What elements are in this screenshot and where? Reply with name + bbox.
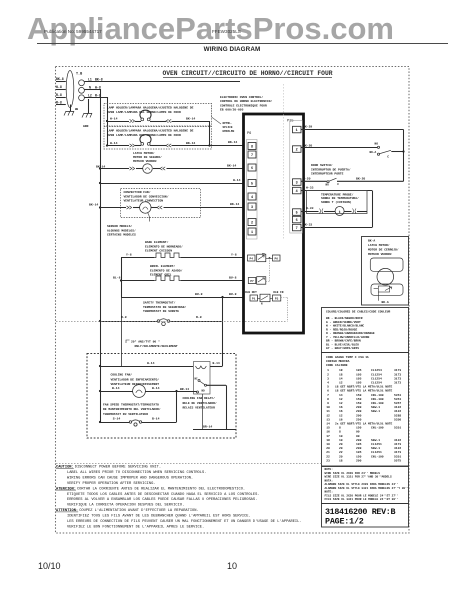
- svg-text:BK-A: BK-A: [370, 151, 377, 154]
- svg-text:250: 250: [356, 418, 362, 421]
- svg-text:10: 10: [326, 406, 330, 409]
- svg-text:LABEL ALL WIRES PRIOR TO DISCO: LABEL ALL WIRES PRIOR TO DISCONNECTION W…: [67, 471, 206, 475]
- svg-text:5288: 5288: [394, 414, 401, 417]
- svg-text:BK-8: BK-8: [95, 77, 103, 81]
- svg-text:BK-A: BK-A: [368, 240, 375, 243]
- svg-text:20" ANS/TYT 90 ": 20" ANS/TYT 90 ": [131, 340, 160, 344]
- svg-text:LAMP HOLDER/LAMPARA HALOGENA/A: LAMP HOLDER/LAMPARA HALOGENA/AJUSTED HAL…: [107, 129, 194, 133]
- svg-text:CL1254: CL1254: [371, 382, 382, 385]
- svg-text:ERRORES AL VOLVER A ENSAMBLAR: ERRORES AL VOLVER A ENSAMBLAR LOS CABLES…: [67, 498, 257, 502]
- svg-text:BK - BLACK/NEGRO/NOIR: BK - BLACK/NEGRO/NOIR: [326, 316, 363, 320]
- svg-text:BK-14: BK-14: [230, 202, 239, 206]
- svg-text:SPLICE: SPLICE: [223, 126, 233, 129]
- svg-text:MOTEUR VERROU: MOTEUR VERROU: [133, 160, 157, 163]
- svg-text:W-33: W-33: [306, 185, 314, 189]
- svg-text:BU-8: BU-8: [195, 292, 203, 296]
- svg-text:3122: 3122: [394, 447, 401, 450]
- svg-text:3173: 3173: [394, 382, 401, 385]
- svg-text:P4: P4: [250, 258, 254, 261]
- svg-text:105: 105: [356, 382, 362, 385]
- svg-text:VENTILADOR DE CONVECCION/: VENTILADOR DE CONVECCION/: [124, 194, 169, 198]
- svg-text:BK-14: BK-14: [228, 140, 237, 144]
- svg-text:3122: 3122: [394, 410, 401, 413]
- svg-text:P6: P6: [275, 258, 279, 261]
- svg-text:318416200 REV:B: 318416200 REV:B: [325, 507, 395, 517]
- svg-text:T.B: T.B: [76, 73, 82, 77]
- svg-text:WIRING ERRORS CAN CAUSE IMPROP: WIRING ERRORS CAN CAUSE IMPROPER AND DAN…: [67, 476, 193, 480]
- svg-text:BR-14: BR-14: [180, 388, 189, 391]
- svg-text:12: 12: [339, 402, 343, 405]
- svg-text:B-14: B-14: [152, 417, 160, 421]
- svg-text:L2: L2: [88, 93, 92, 97]
- svg-text:150: 150: [356, 455, 362, 458]
- svg-text:NOTE:: NOTE:: [325, 468, 334, 471]
- svg-text:BK-20: BK-20: [303, 144, 312, 148]
- svg-text:NO: NO: [375, 142, 379, 145]
- svg-text:NC: NC: [195, 378, 199, 381]
- svg-text:4: 4: [251, 196, 253, 200]
- svg-text:R-8: R-8: [196, 315, 202, 319]
- svg-text:DISCONNECT POWER BEFORE SERVIC: DISCONNECT POWER BEFORE SERVICING UNIT.: [75, 466, 161, 470]
- svg-text:TERMOSTATO DE SEGURIDAD/: TERMOSTATO DE SEGURIDAD/: [143, 305, 186, 309]
- svg-text:14: 14: [326, 423, 330, 426]
- svg-text:8: 8: [251, 146, 253, 150]
- svg-text:R-8: R-8: [121, 315, 127, 319]
- svg-text:11: 11: [326, 410, 330, 413]
- svg-text:CNL-190: CNL-190: [371, 394, 384, 397]
- svg-text:THERMOSTAT DU VENTILATEUR: THERMOSTAT DU VENTILATEUR: [103, 413, 148, 416]
- svg-text:3: 3: [251, 206, 253, 210]
- svg-text:P7: P7: [250, 280, 254, 283]
- svg-text:WIRE SIZE UL 3321 FOR 27''AND: WIRE SIZE UL 3321 FOR 27''AND 30''MODELS: [325, 475, 392, 479]
- svg-text:W-14: W-14: [233, 178, 241, 182]
- svg-text:IDENTIFIEZ TOUS LES FILS AVANT: IDENTIFIEZ TOUS LES FILS AVANT DE LES DE…: [67, 514, 251, 519]
- svg-text:THERMOSTAT DE SURETE: THERMOSTAT DE SURETE: [143, 310, 179, 313]
- svg-text:3173: 3173: [394, 377, 401, 380]
- svg-text:20: 20: [339, 443, 343, 446]
- svg-text:ONLY/SOLAMENTE/SEULEMENT: ONLY/SOLAMENTE/SEULEMENT: [135, 344, 178, 348]
- svg-text:FILS SIZE UL 2X20 POUR LE MODE: FILS SIZE UL 2X20 POUR LE MODELE 24''ET …: [325, 493, 399, 497]
- svg-text:BK-14: BK-14: [89, 203, 98, 207]
- svg-text:SGW-1: SGW-1: [371, 447, 380, 450]
- svg-text:CL1251: CL1251: [371, 451, 382, 454]
- svg-text:200: 200: [356, 447, 362, 450]
- svg-text:2: 2: [251, 222, 253, 226]
- svg-text:CL1254: CL1254: [371, 373, 382, 376]
- svg-text:EMPALME: EMPALME: [223, 130, 235, 133]
- svg-text:P1: P1: [252, 298, 256, 301]
- svg-text:SONDE T (CUISSON): SONDE T (CUISSON): [321, 200, 352, 204]
- svg-text:OLB IN: OLB IN: [273, 291, 283, 294]
- svg-text:BK-8: BK-8: [56, 77, 64, 81]
- svg-text:4: 4: [296, 190, 298, 194]
- svg-text:5350: 5350: [394, 418, 401, 421]
- svg-text:VERIFY PROPER OPERATION AFTER: VERIFY PROPER OPERATION AFTER SERVICING.: [67, 482, 156, 486]
- svg-text:SONDA DE TEMPERATURA/: SONDA DE TEMPERATURA/: [321, 196, 359, 200]
- svg-text:PAGE:1/2: PAGE:1/2: [325, 517, 364, 527]
- svg-text:3173: 3173: [394, 373, 401, 376]
- svg-text:BROIL ELEMENT/: BROIL ELEMENT/: [150, 264, 175, 268]
- svg-text:5351: 5351: [394, 394, 401, 397]
- svg-text:O - ORANGE/ANARANJADO/ORANGE: O - ORANGE/ANARANJADO/ORANGE: [326, 331, 375, 335]
- svg-text:RELAIS VENTILATEUR: RELAIS VENTILATEUR: [183, 407, 216, 410]
- svg-text:2: 2: [296, 149, 298, 153]
- svg-text:18 GET NGRT/VTS LA META/UL51 N: 18 GET NGRT/VTS LA META/UL51 NOTE: [335, 385, 393, 389]
- svg-text:COUPEZ L'ALIMENTATION AVANT D': COUPEZ L'ALIMENTATION AVANT D'EFFECTUER …: [79, 508, 199, 513]
- svg-text:200: 200: [356, 410, 362, 413]
- svg-text:17: 17: [326, 435, 330, 438]
- svg-text:BL-8: BL-8: [113, 276, 121, 280]
- svg-text:3173: 3173: [394, 451, 401, 454]
- svg-text:OLB OUT: OLB OUT: [245, 291, 257, 294]
- svg-text:7: 7: [296, 227, 298, 231]
- svg-text:CODE GAUGE TEMP C CSA: CODE GAUGE TEMP C CSA UL: [326, 356, 369, 359]
- svg-text:VERIFIEZ LE BON FONCTIONNEMENT: VERIFIEZ LE BON FONCTIONNEMENT DE L'APPA…: [67, 524, 204, 529]
- svg-text:CONVECTION FAN/: CONVECTION FAN/: [124, 190, 151, 194]
- svg-text:R-8: R-8: [56, 100, 62, 104]
- svg-text:BAKE ELEMENT/: BAKE ELEMENT/: [145, 240, 169, 244]
- svg-text:C: C: [337, 183, 339, 186]
- svg-text:105: 105: [356, 451, 362, 454]
- svg-text:INTERRUPTEUR PORTE: INTERRUPTEUR PORTE: [311, 173, 344, 176]
- svg-text:105: 105: [356, 369, 362, 372]
- svg-text:ALAMBRE SIZE UL STYLE 3321 PAR: ALAMBRE SIZE UL STYLE 3321 PARA MODELOS …: [325, 486, 409, 490]
- svg-text:8: 8: [327, 398, 329, 401]
- svg-text:5: 5: [327, 386, 329, 389]
- svg-text:6: 6: [296, 219, 298, 223]
- svg-text:CONTROLE ELECTRONIQUE FOUR: CONTROLE ELECTRONIQUE FOUR: [220, 104, 267, 107]
- svg-text:150: 150: [356, 427, 362, 430]
- svg-text:1: 1: [327, 369, 329, 372]
- svg-text:CONTROL DE HORNO ELECTRONICO/: CONTROL DE HORNO ELECTRONICO/: [220, 99, 272, 103]
- svg-text:N: N: [89, 85, 91, 89]
- svg-text:GND: GND: [83, 125, 89, 128]
- svg-text:P3: P3: [275, 298, 279, 301]
- svg-text:Y - YELLOW/AMARILLO/JAUNE: Y - YELLOW/AMARILLO/JAUNE: [326, 335, 370, 339]
- svg-text:CNL-190: CNL-190: [371, 427, 384, 430]
- svg-text:3173: 3173: [394, 443, 401, 446]
- svg-text:SAFETY THERMOSTAT/: SAFETY THERMOSTAT/: [143, 301, 176, 305]
- svg-text:ATENCION:: ATENCION:: [56, 487, 76, 491]
- svg-text:16: 16: [326, 431, 330, 434]
- svg-text:FILS SIZE UL 3321 POUR LE MODE: FILS SIZE UL 3321 POUR LE MODELE 24''ET …: [325, 497, 399, 501]
- svg-text:18: 18: [326, 439, 330, 442]
- svg-text:14: 14: [339, 394, 343, 397]
- svg-text:12: 12: [326, 414, 330, 417]
- svg-text:16: 16: [339, 418, 343, 421]
- svg-text:NOTA:: NOTA:: [325, 479, 334, 482]
- svg-text:P6: P6: [247, 132, 251, 136]
- svg-text:VERIFIQUE LA CORRECTA OPERACIO: VERIFIQUE LA CORRECTA OPERACION DESPUES …: [67, 504, 184, 508]
- svg-text:5: 5: [296, 212, 298, 216]
- svg-text:CAUTION:: CAUTION:: [56, 466, 74, 470]
- svg-text:BR-14: BR-14: [203, 424, 212, 428]
- svg-text:BK-29: BK-29: [303, 124, 312, 128]
- svg-text:5: 5: [251, 183, 253, 187]
- svg-text:EB 600/20-005: EB 600/20-005: [220, 108, 244, 112]
- svg-text:BK-14: BK-14: [186, 116, 195, 120]
- svg-text:1: 1: [251, 231, 253, 235]
- svg-text:CNL-190: CNL-190: [371, 455, 384, 458]
- svg-text:MOTOR DE SEGURO/: MOTOR DE SEGURO/: [133, 155, 162, 159]
- svg-text:FAN SPEED THERMOSTAT/TERMOSTAT: FAN SPEED THERMOSTAT/TERMOSTATO: [103, 402, 159, 406]
- svg-text:105: 105: [356, 443, 362, 446]
- svg-text:NO: NO: [202, 389, 206, 392]
- svg-text:12: 12: [339, 382, 343, 385]
- svg-text:12: 12: [339, 398, 343, 401]
- svg-text:ATTENTION:: ATTENTION:: [56, 509, 78, 513]
- svg-text:5351: 5351: [394, 455, 401, 458]
- svg-text:BK-33: BK-33: [303, 222, 312, 226]
- svg-text:CNL-190: CNL-190: [371, 398, 384, 401]
- svg-text:90: 90: [356, 431, 360, 434]
- svg-text:200: 200: [356, 439, 362, 442]
- svg-text:WIRE SIZE UL 2X20 FOR 24'' MOD: WIRE SIZE UL 2X20 FOR 24'' MODELS: [325, 471, 381, 475]
- svg-text:105: 105: [356, 377, 362, 380]
- svg-text:4: 4: [327, 382, 329, 385]
- svg-text:8: 8: [339, 431, 341, 434]
- svg-text:7: 7: [327, 394, 329, 397]
- svg-text:INTERRUPTOR DE PUERTA/: INTERRUPTOR DE PUERTA/: [311, 167, 351, 171]
- svg-text:BR - BROWN/CAFE/BRUN: BR - BROWN/CAFE/BRUN: [326, 339, 361, 343]
- svg-text:23: 23: [326, 459, 330, 462]
- svg-text:CNL-190: CNL-190: [371, 402, 384, 405]
- svg-text:ELEMENTO DE HORNEADO/: ELEMENTO DE HORNEADO/: [145, 244, 183, 248]
- svg-text:BK-A: BK-A: [382, 301, 389, 304]
- svg-text:SGW-1: SGW-1: [371, 439, 380, 442]
- svg-text:90: 90: [356, 435, 360, 438]
- svg-text:CERTAINS MODELES: CERTAINS MODELES: [107, 234, 136, 237]
- svg-text:14: 14: [339, 377, 343, 380]
- svg-text:12: 12: [339, 414, 343, 417]
- svg-text:22: 22: [339, 451, 343, 454]
- svg-text:ALAMBRE SIZE UL STYLE 2X20 PAR: ALAMBRE SIZE UL STYLE 2X20 PARA MODELOS …: [325, 482, 399, 486]
- svg-text:20: 20: [326, 447, 330, 450]
- svg-text:LES ERREURS DE CONNECTION DE F: LES ERREURS DE CONNECTION DE FILS PEUVEN…: [67, 519, 302, 524]
- svg-text:W-8: W-8: [56, 85, 62, 89]
- svg-text:VENTILADOR DE ENFRIAMIENTO/: VENTILADOR DE ENFRIAMIENTO/: [111, 377, 160, 381]
- svg-text:MOTEUR VERROU: MOTEUR VERROU: [368, 253, 392, 256]
- svg-text:3: 3: [296, 182, 298, 186]
- svg-text:BL - BLUE/AZUL/BLEU: BL - BLUE/AZUL/BLEU: [326, 342, 359, 346]
- svg-text:W - WHITE/BLANCO/BLANC: W - WHITE/BLANCO/BLANC: [326, 324, 364, 328]
- svg-text:1: 1: [296, 129, 298, 133]
- svg-text:CODIGO MEDIDA: CODIGO MEDIDA: [326, 360, 350, 363]
- svg-text:MOTOR DE CERROJO/: MOTOR DE CERROJO/: [368, 248, 399, 252]
- svg-text:ETIQUETE TODOS LOS CABLES ANTE: ETIQUETE TODOS LOS CABLES ANTES DE DESCO…: [67, 493, 260, 497]
- svg-text:BB: BB: [75, 108, 79, 111]
- svg-text:9: 9: [327, 402, 329, 405]
- svg-text:ALGUNOS MODELOS/: ALGUNOS MODELOS/: [107, 228, 136, 232]
- svg-text:S-14: S-14: [113, 417, 121, 421]
- svg-text:BU-8: BU-8: [229, 292, 237, 296]
- svg-text:16: 16: [339, 410, 343, 413]
- svg-text:BU-8: BU-8: [229, 276, 237, 280]
- svg-text:SENSOR MODELS/: SENSOR MODELS/: [107, 224, 132, 228]
- svg-text:SGW-1: SGW-1: [371, 406, 380, 409]
- svg-text:R-8: R-8: [95, 93, 101, 97]
- svg-text:200: 200: [356, 459, 362, 462]
- svg-text:W-8: W-8: [95, 85, 101, 89]
- svg-text:B-14: B-14: [213, 362, 220, 365]
- svg-text:R - RED/ROJO/ROUGE: R - RED/ROJO/ROUGE: [326, 327, 357, 331]
- svg-text:5351: 5351: [394, 398, 401, 401]
- svg-text:Y-8: Y-8: [126, 253, 132, 257]
- svg-text:200: 200: [356, 414, 362, 417]
- svg-text:COOLING FAN RELAY/: COOLING FAN RELAY/: [183, 396, 216, 400]
- svg-text:W-14: W-14: [110, 116, 118, 120]
- svg-text:CODE CALIBRE: CODE CALIBRE: [326, 364, 348, 367]
- svg-text:7: 7: [251, 154, 253, 158]
- svg-text:OPTNL.: OPTNL.: [223, 122, 233, 125]
- svg-text:10: 10: [339, 439, 343, 442]
- svg-text:6: 6: [251, 167, 253, 171]
- svg-text:150: 150: [356, 398, 362, 401]
- svg-text:CL1251: CL1251: [371, 443, 382, 446]
- svg-text:COLORS/COLORES DE CABLES/CODE: COLORS/COLORES DE CABLES/CODE COULEUR: [326, 310, 390, 314]
- svg-text:W-14: W-14: [147, 361, 155, 365]
- svg-text:200: 200: [356, 406, 362, 409]
- svg-text:DOOR SWITCH/: DOOR SWITCH/: [311, 163, 333, 167]
- svg-text:CL1254: CL1254: [371, 377, 382, 380]
- svg-text:CORTAR LA CORRIENTE ANTES DE R: CORTAR LA CORRIENTE ANTES DE REALIZAR EL…: [77, 487, 245, 491]
- svg-text:8: 8: [339, 427, 341, 430]
- svg-text:R-8: R-8: [56, 93, 62, 97]
- svg-text:COOLING FAN/: COOLING FAN/: [111, 373, 133, 377]
- svg-text:SGW-1: SGW-1: [371, 410, 380, 413]
- svg-text:10: 10: [339, 435, 343, 438]
- svg-text:3173: 3173: [394, 369, 401, 372]
- svg-text:21: 21: [326, 451, 330, 454]
- svg-text:TEMPERATURE PROBE/: TEMPERATURE PROBE/: [321, 192, 354, 196]
- svg-text:BK-14: BK-14: [227, 164, 236, 168]
- svg-text:18: 18: [339, 373, 343, 376]
- svg-text:105: 105: [356, 373, 362, 376]
- svg-text:6: 6: [327, 390, 329, 393]
- svg-text:15: 15: [326, 427, 330, 430]
- svg-text:18: 18: [339, 459, 343, 462]
- svg-text:5351: 5351: [394, 427, 401, 430]
- svg-text:B-14: B-14: [112, 386, 120, 390]
- svg-text:3: 3: [327, 377, 329, 380]
- svg-text:LATCH MOTOR/: LATCH MOTOR/: [133, 151, 155, 155]
- svg-text:ELEMENT CUISSON: ELEMENT CUISSON: [145, 250, 172, 253]
- svg-text:GY - GRAY/GRIS/GRIS: GY - GRAY/GRIS/GRIS: [326, 346, 359, 350]
- svg-text:3122: 3122: [394, 406, 401, 409]
- svg-text:B-14: B-14: [152, 386, 160, 390]
- svg-text:150: 150: [356, 394, 362, 397]
- svg-text:RELE DE VENTILADOR/: RELE DE VENTILADOR/: [183, 401, 217, 405]
- svg-text:2: 2: [327, 373, 329, 376]
- svg-text:C: C: [387, 155, 389, 158]
- svg-text:18: 18: [339, 369, 343, 372]
- svg-text:P15: P15: [287, 120, 293, 124]
- svg-text:L1: L1: [88, 77, 92, 81]
- svg-text:W-20: W-20: [303, 176, 311, 180]
- svg-text:ELECTRONIC OVEN CONTROL/: ELECTRONIC OVEN CONTROL/: [220, 95, 263, 99]
- svg-text:ELEMENTO DE ASADO/: ELEMENTO DE ASADO/: [150, 268, 183, 272]
- svg-text:5357: 5357: [394, 402, 401, 405]
- svg-text:BK-20: BK-20: [356, 176, 365, 180]
- svg-text:NOTE:: NOTE:: [325, 491, 334, 494]
- svg-text:19: 19: [326, 443, 330, 446]
- svg-text:W-33: W-33: [306, 206, 314, 210]
- svg-text:t: t: [339, 211, 341, 215]
- svg-text:LATCH MOTOR/: LATCH MOTOR/: [368, 243, 390, 247]
- svg-text:W-14: W-14: [110, 141, 118, 145]
- svg-text:BK-14: BK-14: [186, 141, 195, 145]
- svg-text:5575: 5575: [394, 459, 401, 462]
- svg-text:OVEN CIRCUIT//CIRCUITO DE HORN: OVEN CIRCUIT//CIRCUITO DE HORNO//CIRCUIT…: [162, 70, 332, 77]
- svg-text:CL1254: CL1254: [371, 369, 382, 372]
- svg-text:18 GET NGRT/VTS LA META/UL51 N: 18 GET NGRT/VTS LA META/UL51 NOTE: [335, 389, 393, 393]
- svg-text:G - GREEN/VERDE/VERT: G - GREEN/VERDE/VERT: [326, 320, 361, 324]
- svg-text:20: 20: [339, 447, 343, 450]
- svg-text:22: 22: [326, 455, 330, 458]
- svg-text:2x GET NGRT/VTS LA META/UL51 N: 2x GET NGRT/VTS LA META/UL51 NOTE: [335, 422, 393, 426]
- svg-text:3122: 3122: [394, 439, 401, 442]
- svg-text:20: 20: [339, 455, 343, 458]
- svg-text:13: 13: [326, 418, 330, 421]
- svg-text:150: 150: [356, 402, 362, 405]
- svg-text:DE MANTENIMIENTO DEL VENTILADO: DE MANTENIMIENTO DEL VENTILADOR/: [103, 407, 161, 411]
- svg-text:N: N: [261, 303, 263, 306]
- svg-text:NA: NA: [326, 183, 330, 186]
- svg-text:LAMP HOLDER/LAMPARA HALOGENA/A: LAMP HOLDER/LAMPARA HALOGENA/AJUSTED HAL…: [107, 106, 194, 110]
- svg-text:16: 16: [339, 406, 343, 409]
- svg-text:Y-8: Y-8: [231, 253, 237, 257]
